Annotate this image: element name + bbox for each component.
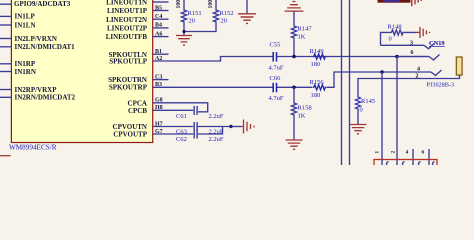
pin CPVOUTP, pin number G7 (113, 129, 162, 139)
svg-text:180: 180 (311, 92, 321, 99)
svg-text:6: 6 (0, 92, 1, 98)
svg-text:LINEOUT1N: LINEOUT1N (106, 0, 147, 7)
wire R147 to junction (293, 40, 295, 57)
svg-text:R147: R147 (298, 26, 313, 33)
resistor R152 (213, 9, 233, 25)
svg-text:CPVOUTP: CPVOUTP (113, 131, 147, 139)
svg-text:1: 1 (375, 151, 381, 154)
junction node R147/R149 (292, 55, 296, 59)
svg-text:8: 8 (0, 11, 1, 17)
wire SPKOUTRP net (153, 86, 313, 88)
pin CPCB, pin number H8 (128, 105, 163, 115)
svg-text:IN2LN/DMICDAT1: IN2LN/DMICDAT1 (15, 43, 76, 51)
wire R152 column (215, 0, 217, 9)
resistor R148 (381, 23, 416, 45)
pin IN2LP/VRXN (0, 33, 57, 43)
svg-text:A6: A6 (155, 31, 162, 37)
svg-text:4: 4 (417, 66, 420, 72)
resistor R156 (310, 79, 327, 99)
wire CPVOUT to ground (231, 126, 241, 128)
pin LINEOUT2P, pin number B4 (107, 23, 169, 33)
svg-text:100: 100 (176, 0, 182, 9)
svg-text:C4: C4 (155, 14, 162, 20)
pin IN2LN/DMICDAT1 (0, 41, 75, 51)
resistor top-right (cut) highlighted (378, 0, 411, 3)
svg-text:R156: R156 (310, 79, 325, 86)
svg-text:1K: 1K (298, 113, 306, 120)
pin IN1RN (0, 66, 36, 76)
connector CN19 designator (429, 40, 445, 47)
svg-text:IN2RP/VRXP: IN2RP/VRXP (15, 86, 58, 94)
svg-text:IN1RN: IN1RN (15, 68, 36, 76)
svg-text:LINEOUT1P: LINEOUT1P (107, 7, 148, 15)
svg-text:5: 5 (0, 66, 1, 72)
resistor R147 (291, 25, 312, 41)
svg-text:PJ3028B-3: PJ3028B-3 (427, 82, 455, 89)
pin IN2RP/VRXP (0, 84, 57, 94)
svg-text:LINEOUTFB: LINEOUTFB (106, 33, 148, 41)
svg-text:2: 2 (391, 151, 397, 154)
svg-text:R151: R151 (188, 10, 202, 17)
svg-text:B4: B4 (155, 23, 162, 29)
capacitor C63 (176, 122, 224, 136)
svg-text:4.7uF: 4.7uF (269, 95, 284, 102)
jack sleeve bar (456, 57, 462, 75)
svg-text:LINEOUT2N: LINEOUT2N (106, 16, 147, 24)
pin LINEOUT1N (106, 0, 168, 7)
ground (top, x=247) (238, 14, 256, 24)
capacitor C55 (269, 41, 284, 71)
pin IN2RN/DMICDAT2 (0, 92, 76, 102)
pin SPKOUTRN, pin number C3 (108, 74, 168, 84)
pin CPVOUTN, pin number H7 (113, 121, 163, 131)
ground (rotated right, top-right cut) (412, 0, 421, 6)
ground (under R151/R152) (176, 36, 192, 46)
svg-text:6: 6 (0, 41, 1, 47)
wire vertical bus 2 (349, 0, 351, 165)
pin SPKOUTLP, pin number A2 (109, 56, 162, 66)
svg-text:CPCB: CPCB (128, 107, 147, 115)
junction R151 ground (182, 30, 185, 33)
wire bottom stub 3 (412, 149, 414, 165)
svg-text:C61: C61 (176, 113, 187, 120)
svg-text:2.2uF: 2.2uF (209, 113, 224, 120)
svg-text:IN2LP/VRXN: IN2LP/VRXN (15, 35, 57, 43)
svg-text:1K: 1K (298, 34, 306, 41)
wire SPKOUTLP net (153, 57, 429, 62)
pin GPIO9/ADCDAT3 (0, 0, 71, 8)
resistor R151 (181, 9, 201, 25)
capacitor C66 (269, 75, 284, 102)
wire R151 column (183, 0, 185, 9)
svg-text:2: 2 (416, 73, 419, 79)
jack pin 3 (381, 41, 435, 49)
IC WM8994 body (11, 0, 152, 143)
wire R151/R152 to ground (184, 23, 216, 35)
svg-text:6: 6 (0, 19, 1, 25)
junction node pin6 branch (395, 55, 399, 59)
svg-text:B5: B5 (155, 5, 162, 11)
wire pin4 branch down (381, 72, 383, 165)
pin IN1RP (0, 58, 36, 68)
svg-text:8: 8 (0, 84, 1, 90)
junction node CPVOUT (229, 125, 232, 128)
wire CPVOUTP net (153, 127, 223, 135)
capacitor C61 (176, 106, 224, 120)
ground (under R145) (350, 125, 367, 134)
ground (under R158) (286, 140, 303, 149)
svg-text:20: 20 (189, 18, 196, 25)
svg-text:C3: C3 (155, 74, 162, 80)
resistor R145 (355, 96, 375, 124)
bottom connector body (cut) (374, 160, 437, 168)
svg-text:7: 7 (0, 58, 1, 64)
ground (rotated right, R148) (416, 27, 430, 38)
pin LINEOUT2N, pin number C4 (106, 14, 168, 24)
svg-text:R148: R148 (388, 23, 402, 30)
junction node R158 branch (292, 86, 296, 90)
net label 100 (vertical, left) (176, 0, 182, 9)
wire R156 out to pin4 row (327, 72, 432, 87)
ground (rotated right, CPVOUT) (241, 120, 254, 134)
pin IN1LN (0, 19, 36, 29)
svg-text:IN1LP: IN1LP (15, 13, 36, 21)
pin SPKOUTLN, pin number B1 (108, 49, 168, 59)
svg-text:0: 0 (360, 107, 363, 114)
svg-text:20: 20 (221, 18, 228, 25)
svg-text:R158: R158 (298, 105, 312, 112)
svg-text:C62: C62 (176, 136, 187, 143)
wire bottom stub 4 (428, 149, 430, 165)
junction node pin4 branch (380, 70, 384, 74)
resistor R158 (291, 87, 311, 139)
capacitor C62 (176, 130, 224, 144)
jack pin 2 (416, 73, 419, 79)
resistor R149 (310, 48, 327, 68)
wire CPVOUTN net (153, 126, 231, 128)
svg-text:0: 0 (389, 35, 392, 42)
svg-text:2.2uF: 2.2uF (209, 136, 224, 143)
svg-text:6: 6 (422, 150, 425, 156)
svg-text:B1: B1 (155, 49, 162, 55)
svg-text:SPKOUTRP: SPKOUTRP (109, 84, 148, 92)
svg-text:IN1LN: IN1LN (15, 21, 36, 29)
pin LINEOUT1P, pin number B5 (107, 5, 169, 15)
svg-text:4.7uF: 4.7uF (269, 64, 284, 71)
svg-text:R149: R149 (310, 48, 324, 55)
svg-text:R152: R152 (220, 10, 234, 17)
svg-text:R145: R145 (361, 98, 375, 105)
pin IN1LP (0, 11, 35, 21)
wire to top ground (246, 0, 248, 14)
net label 100 (vertical, right) (208, 0, 214, 9)
pin CPCA, pin number G8 (128, 98, 163, 108)
svg-text:C66: C66 (270, 75, 282, 82)
svg-text:8: 8 (0, 33, 1, 39)
svg-text:4: 4 (406, 150, 409, 156)
wire pin2 net (358, 75, 460, 96)
wire vertical bus 1 (341, 0, 343, 165)
wire pin6 branch down (396, 57, 398, 166)
svg-text:180: 180 (311, 61, 321, 68)
bottom connector contact arcs (387, 162, 435, 166)
pin SPKOUTRP, pin number B3 (109, 82, 162, 92)
red marker bottom-left (0, 155, 11, 157)
svg-text:100: 100 (208, 0, 214, 9)
op-amp U1 (11, 0, 152, 143)
jack pin 6 (397, 50, 440, 60)
svg-text:C55: C55 (270, 41, 281, 48)
pin LINEOUTFB, pin number A6 (106, 31, 169, 41)
wire CPCB net (153, 109, 194, 111)
svg-text:WM8994ECS/R: WM8994ECS/R (9, 144, 57, 152)
svg-text:IN2RN/DMICDAT2: IN2RN/DMICDAT2 (15, 94, 76, 102)
svg-text:6: 6 (411, 50, 414, 56)
wire CPCA net (153, 103, 208, 112)
jack pin 4 (417, 66, 442, 75)
ground (inverted, above R147) (285, 2, 304, 25)
svg-text:GPIO9/ADCDAT3: GPIO9/ADCDAT3 (14, 0, 71, 8)
svg-text:SPKOUTLP: SPKOUTLP (109, 58, 147, 66)
svg-text:LINEOUT2P: LINEOUT2P (107, 25, 148, 33)
